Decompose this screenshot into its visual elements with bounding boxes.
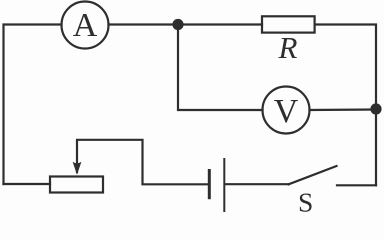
wire junction down to voltmeter	[178, 25, 263, 111]
wire bottom-left to rheostat	[4, 183, 51, 185]
wire ammeter to resistor	[109, 23, 263, 25]
svg-text:R: R	[278, 30, 298, 65]
battery positive long plate	[223, 159, 225, 211]
rheostat slider arrowhead	[73, 162, 82, 175]
voltmeter V circle	[263, 87, 310, 134]
wire voltmeter right	[310, 108, 377, 111]
wire top-left segment	[4, 25, 62, 185]
resistor R box	[262, 16, 315, 32]
svg-text:A: A	[73, 7, 98, 44]
svg-text:V: V	[274, 93, 299, 130]
switch S lever	[289, 166, 337, 184]
wire switch right contact	[337, 184, 376, 186]
battery negative short plate	[208, 171, 211, 198]
ammeter A circle	[62, 2, 109, 49]
rheostat box	[50, 177, 103, 193]
junction node top	[172, 19, 183, 30]
svg-text:S: S	[298, 186, 313, 215]
wire battery to switch	[225, 183, 288, 185]
wire resistor to top-right corner and down	[315, 25, 376, 186]
wire slider arm up-over-down	[77, 140, 208, 185]
junction node right	[370, 103, 381, 114]
